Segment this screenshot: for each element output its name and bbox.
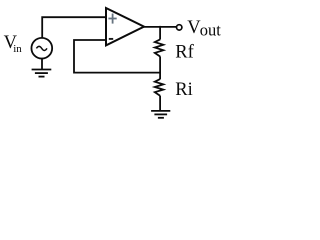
svg-text:Rf: Rf <box>175 42 194 62</box>
svg-text:in: in <box>13 43 22 55</box>
svg-text:Ri: Ri <box>175 80 192 100</box>
svg-text:out: out <box>200 20 222 39</box>
